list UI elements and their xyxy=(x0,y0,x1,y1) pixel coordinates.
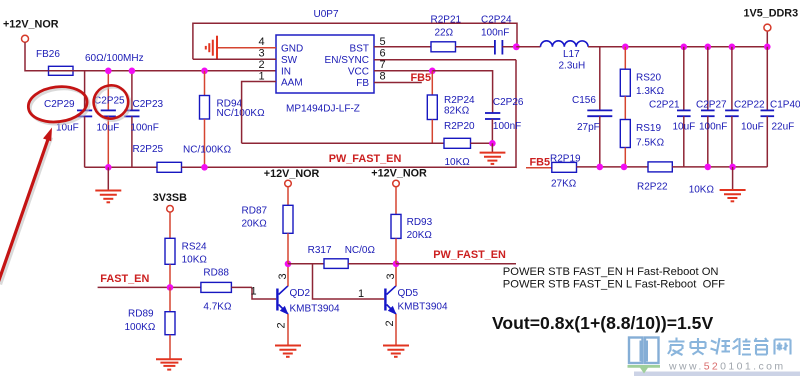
svg-text:POWER STB FAST_EN H Fast-Reboo: POWER STB FAST_EN H Fast-Reboot ON xyxy=(503,266,719,278)
svg-text:IN: IN xyxy=(281,66,291,77)
svg-text:C2P21: C2P21 xyxy=(649,100,680,111)
resistor RS19 xyxy=(620,120,664,167)
wire lower rail left of R2P25 with ground xyxy=(85,166,157,168)
junction dot FAST_EN node xyxy=(167,284,174,291)
svg-text:C2P26: C2P26 xyxy=(493,97,524,108)
svg-text:4.7KΩ: 4.7KΩ xyxy=(203,302,232,313)
svg-text:RS24: RS24 xyxy=(182,242,207,253)
svg-text:SW: SW xyxy=(281,55,298,66)
inductor L17 xyxy=(516,41,588,72)
svg-text:27KΩ: 27KΩ xyxy=(551,179,577,190)
svg-text:2.3uH: 2.3uH xyxy=(559,61,586,72)
svg-text:FAST_EN: FAST_EN xyxy=(100,273,149,285)
svg-text:2: 2 xyxy=(276,322,288,328)
svg-text:www.520101.com: www.520101.com xyxy=(668,361,785,373)
svg-text:10KΩ: 10KΩ xyxy=(689,185,715,196)
node 1V5_DDR3 output terminal xyxy=(744,8,799,47)
capacitor C2P29 xyxy=(44,71,92,168)
svg-text:FB26: FB26 xyxy=(36,49,60,60)
resistor R317 xyxy=(308,245,396,269)
capacitor C2P26 xyxy=(485,97,524,144)
svg-text:10uF: 10uF xyxy=(97,123,120,134)
svg-text:3: 3 xyxy=(277,273,289,279)
wire QD2 emitter to ground xyxy=(287,314,289,345)
resistor RS24 xyxy=(165,212,207,287)
svg-text:C2P24: C2P24 xyxy=(481,15,512,26)
svg-text:RD93: RD93 xyxy=(407,217,433,228)
ferrite bead FB26 xyxy=(36,49,73,75)
junction dot C2P26 ground node xyxy=(489,140,496,147)
svg-text:2: 2 xyxy=(259,59,265,71)
junction dot SW node xyxy=(513,43,520,50)
node 3V3SB terminal xyxy=(153,192,187,212)
svg-text:60Ω/100MHz: 60Ω/100MHz xyxy=(85,53,144,64)
svg-text:EN/SYNC: EN/SYNC xyxy=(325,55,369,66)
svg-text:20KΩ: 20KΩ xyxy=(242,218,268,229)
pin 8 FB stub xyxy=(374,82,422,84)
resistor RD94 xyxy=(200,71,266,168)
wire PW_FAST_EN from QD5 collector xyxy=(396,263,516,265)
svg-text:MP1494DJ-LF-Z: MP1494DJ-LF-Z xyxy=(286,104,360,115)
junction dot QD5 collector xyxy=(393,261,400,268)
svg-text:Vout=0.8x(1+(8.8/10))=1.5V: Vout=0.8x(1+(8.8/10))=1.5V xyxy=(492,313,713,333)
svg-text:1: 1 xyxy=(358,288,364,300)
resistor R2P22 xyxy=(637,162,714,196)
resistor R2P20 xyxy=(444,121,492,168)
annotation arrow pointing to C2P29 xyxy=(0,128,52,285)
svg-text:1: 1 xyxy=(251,286,257,298)
svg-text:100nF: 100nF xyxy=(131,123,159,134)
svg-text:22uF: 22uF xyxy=(772,122,795,133)
junction dot ground branch xyxy=(105,164,112,171)
svg-text:R317: R317 xyxy=(308,245,332,256)
svg-text:C156: C156 xyxy=(572,95,596,106)
resistor R2P21 xyxy=(431,15,495,52)
svg-text:1V5_DDR3: 1V5_DDR3 xyxy=(744,8,799,20)
wire PW_FAST_EN rail from R2P25 to EN corner xyxy=(182,60,517,168)
capacitor C2P25 xyxy=(94,71,125,168)
pin 7 VCC wire xyxy=(374,70,432,72)
capacitor C2P24 xyxy=(481,15,541,55)
svg-text:7.5KΩ: 7.5KΩ xyxy=(636,138,665,149)
transistor Q2 QD2 KMBT3904 xyxy=(276,286,340,315)
junction dot RD94 bottom xyxy=(201,164,208,171)
svg-text:C2P27: C2P27 xyxy=(696,100,727,111)
ground under RD89 xyxy=(156,359,182,369)
resistor R2P25 xyxy=(133,144,232,172)
ground under QD5 xyxy=(383,346,409,357)
svg-text:R2P20: R2P20 xyxy=(444,121,475,132)
svg-text:L17: L17 xyxy=(563,49,580,60)
pin 4 GND wire xyxy=(217,47,276,49)
ground under input caps xyxy=(95,167,121,202)
svg-text:10uF: 10uF xyxy=(741,122,764,133)
svg-text:FB5: FB5 xyxy=(530,157,551,169)
capacitor C156 xyxy=(572,47,612,167)
svg-text:RS19: RS19 xyxy=(636,123,661,134)
resistor RD88 xyxy=(201,268,252,313)
svg-text:R2P22: R2P22 xyxy=(637,182,668,193)
svg-text:POWER STB FAST_EN L Fast-Reboo: POWER STB FAST_EN L Fast-Reboot OFF xyxy=(503,278,725,290)
svg-text:+12V_NOR: +12V_NOR xyxy=(264,168,320,180)
svg-text:BST: BST xyxy=(350,43,369,54)
wire ground rail right xyxy=(672,166,767,168)
node +12V_NOR terminal at RD93 xyxy=(393,180,400,187)
svg-text:8: 8 xyxy=(380,71,386,83)
svg-text:+12V_NOR: +12V_NOR xyxy=(371,168,427,180)
transistor Q5 QD5 KMBT3904 xyxy=(384,286,448,315)
svg-text:RD87: RD87 xyxy=(242,206,268,217)
resistor RD89 xyxy=(125,287,176,358)
svg-text:R2P25: R2P25 xyxy=(133,144,164,155)
svg-text:100nF: 100nF xyxy=(481,28,509,39)
junction dots on output rail xyxy=(622,44,629,51)
capacitor C2P23 xyxy=(124,71,163,168)
op-amp U0P7 MP1494 regulator chip xyxy=(276,9,374,115)
svg-text:NC/100KΩ: NC/100KΩ xyxy=(217,108,266,119)
svg-text:3: 3 xyxy=(385,273,397,279)
svg-text:3V3SB: 3V3SB xyxy=(153,192,187,204)
capacitor C2P27 xyxy=(696,47,727,167)
resistor RD93 xyxy=(391,187,433,264)
svg-text:R2P21: R2P21 xyxy=(431,15,462,26)
svg-text:C1P40: C1P40 xyxy=(770,100,800,111)
wire QD5 collector xyxy=(395,264,397,286)
wire QD2 collector to R317 and QD5 base tap xyxy=(288,263,324,265)
wire FB5 stub xyxy=(526,167,552,169)
svg-text:7: 7 xyxy=(380,59,386,71)
wire RS20-RS19 mid node xyxy=(624,96,626,119)
svg-text:FB: FB xyxy=(356,78,369,89)
svg-text:RD88: RD88 xyxy=(203,268,229,279)
ground under QD2 xyxy=(275,346,301,357)
svg-text:PW_FAST_EN: PW_FAST_EN xyxy=(329,153,402,165)
svg-text:QD2: QD2 xyxy=(290,288,311,299)
svg-text:10uF: 10uF xyxy=(673,122,696,133)
svg-text:10KΩ: 10KΩ xyxy=(445,157,471,168)
svg-text:6: 6 xyxy=(380,47,386,59)
wire RD88 to QD2 base xyxy=(252,287,276,299)
svg-text:C2P22: C2P22 xyxy=(734,100,765,111)
annotation ellipse around C2P25 xyxy=(91,83,133,124)
svg-text:C2P29: C2P29 xyxy=(44,99,75,110)
wire QD5 emitter to ground xyxy=(395,314,397,345)
svg-text:GND: GND xyxy=(281,44,303,55)
svg-text:KMBT3904: KMBT3904 xyxy=(290,304,340,315)
svg-text:4: 4 xyxy=(259,36,265,48)
svg-text:U0P7: U0P7 xyxy=(314,9,339,20)
svg-text:+12V_NOR: +12V_NOR xyxy=(3,19,59,31)
svg-text:3: 3 xyxy=(259,48,265,60)
svg-text:27pF: 27pF xyxy=(577,122,600,133)
wire FAST_EN xyxy=(98,286,201,288)
annotation ellipse around C2P29 xyxy=(26,83,91,127)
resistor RS20 xyxy=(620,47,664,97)
svg-text:100KΩ: 100KΩ xyxy=(125,322,156,333)
svg-text:PW_FAST_EN: PW_FAST_EN xyxy=(433,249,506,261)
junction dot QD2 collector xyxy=(285,261,292,268)
wire AAM rail to R2P20 xyxy=(242,142,444,144)
pin 6 EN/SYNC wire xyxy=(374,59,516,61)
ground under C2P26 xyxy=(480,143,506,164)
pin 3 SW wire xyxy=(193,58,276,60)
resistor RD87 xyxy=(242,187,294,264)
node +12V_NOR terminal at RD87 xyxy=(285,180,292,187)
wire main +12V rail to chip IN pin 2 xyxy=(73,70,276,72)
wire SW loop over chip top xyxy=(193,23,517,59)
ground bottom right xyxy=(720,167,746,201)
resistor R2P19 xyxy=(550,154,581,190)
svg-text:82KΩ: 82KΩ xyxy=(444,106,470,117)
junction dot VCC node xyxy=(429,68,436,75)
wire output rail to 1V5_DDR3 xyxy=(588,46,767,48)
pin 1 AAM wire xyxy=(242,82,276,144)
node +12V_NOR input terminal xyxy=(3,19,59,43)
capacitor C2P22 xyxy=(725,47,765,167)
svg-text:NC/100KΩ: NC/100KΩ xyxy=(183,145,232,156)
svg-text:1: 1 xyxy=(259,71,265,83)
svg-text:RD89: RD89 xyxy=(128,308,154,319)
svg-text:22Ω: 22Ω xyxy=(435,28,454,39)
svg-text:VCC: VCC xyxy=(348,66,369,77)
svg-text:KMBT3904: KMBT3904 xyxy=(398,302,448,313)
watermark chinese site name (approximated glyphs) xyxy=(668,338,791,356)
svg-text:AAM: AAM xyxy=(281,78,303,89)
svg-text:RS20: RS20 xyxy=(636,73,661,84)
resistor R2P24 xyxy=(427,71,475,144)
svg-text:100nF: 100nF xyxy=(699,122,727,133)
junction dots on +12V rail xyxy=(105,68,112,75)
svg-text:20KΩ: 20KΩ xyxy=(407,230,433,241)
svg-text:10KΩ: 10KΩ xyxy=(182,255,208,266)
svg-text:1.3KΩ: 1.3KΩ xyxy=(636,86,665,97)
pin 5 BST wire xyxy=(374,46,431,48)
svg-text:R2P19: R2P19 xyxy=(550,154,581,165)
svg-text:2: 2 xyxy=(384,320,396,326)
svg-text:100nF: 100nF xyxy=(493,121,521,132)
capacitor C1P40 xyxy=(761,47,800,167)
capacitor C2P21 xyxy=(649,47,695,167)
ground sideways at pin 4 xyxy=(206,36,217,60)
svg-text:QD5: QD5 xyxy=(398,288,419,299)
svg-text:C2P23: C2P23 xyxy=(133,99,164,110)
wire from +12V_NOR terminal down and right to FB26 xyxy=(25,42,49,71)
svg-text:NC/0Ω: NC/0Ω xyxy=(345,245,376,256)
watermark background strip xyxy=(634,372,800,376)
wire FB lower rail xyxy=(577,166,649,168)
watermark book icon xyxy=(628,338,661,374)
wire QD2 collector xyxy=(287,264,289,286)
wire VCC to C2P26 xyxy=(432,71,492,113)
svg-text:R2P24: R2P24 xyxy=(444,95,475,106)
